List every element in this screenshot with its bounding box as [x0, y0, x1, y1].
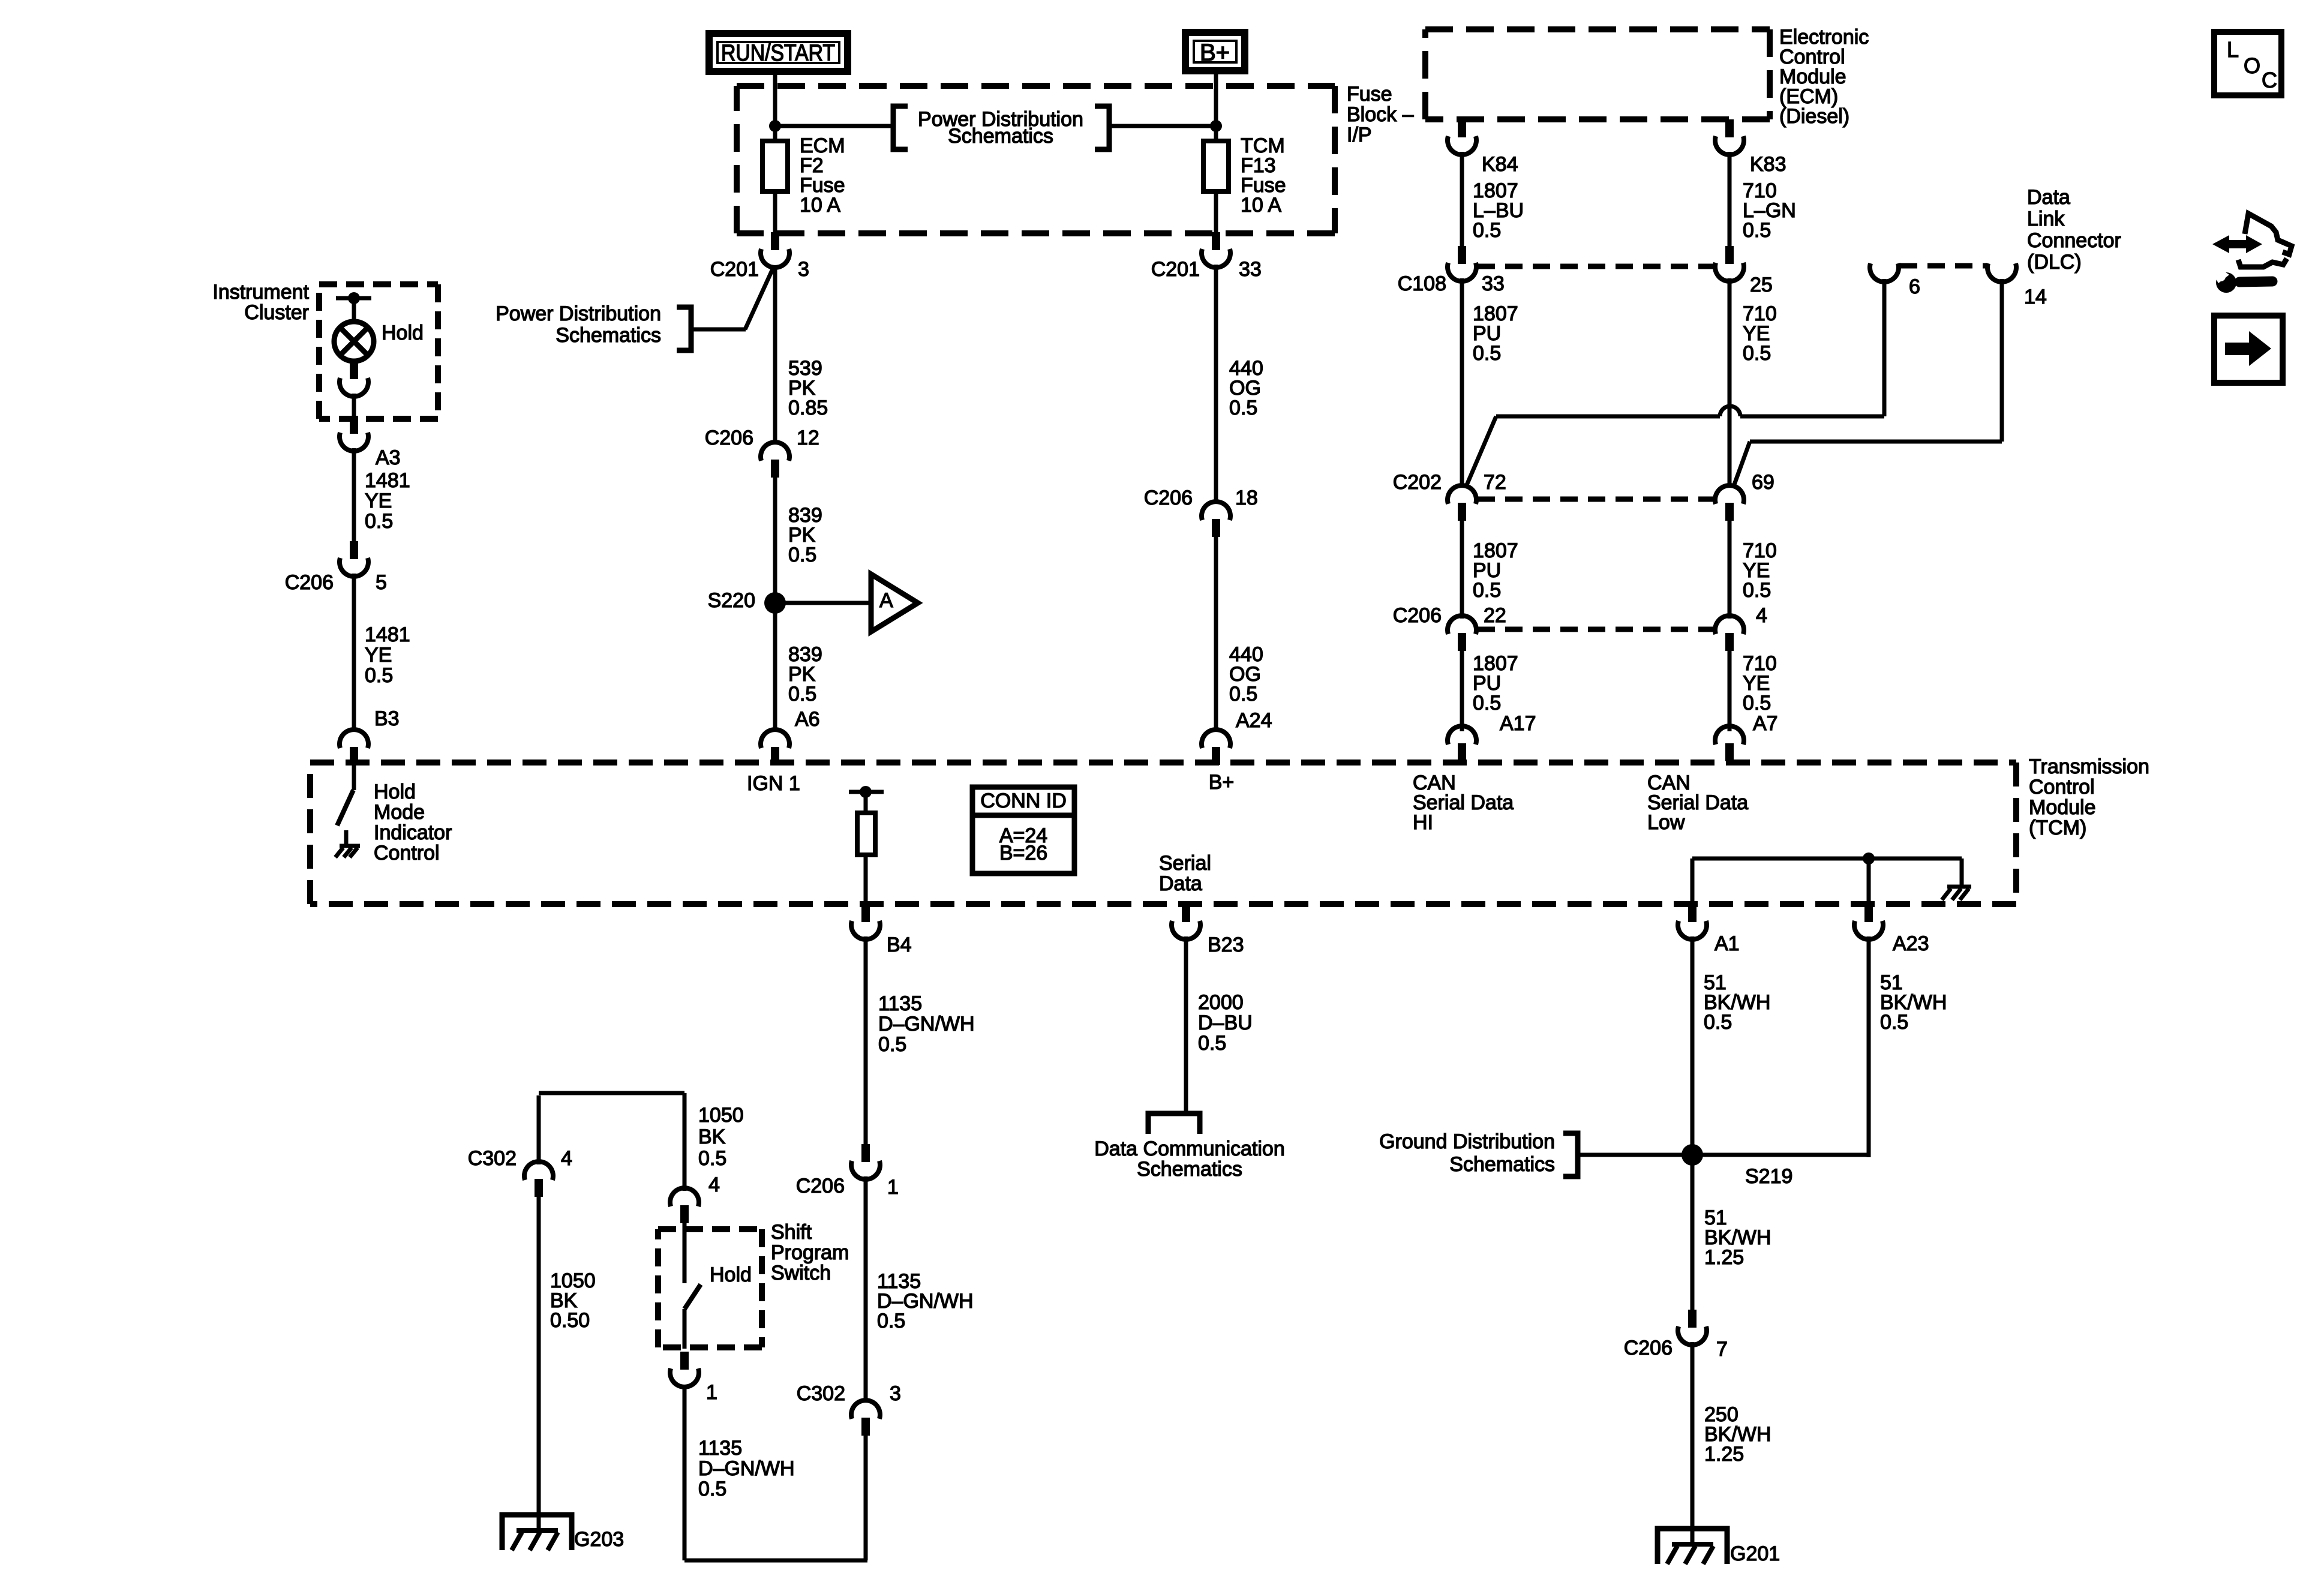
svg-text:Hold: Hold [374, 781, 416, 803]
svg-text:Mode: Mode [374, 801, 425, 824]
svg-text:Power Distribution: Power Distribution [496, 302, 661, 325]
svg-text:Cluster: Cluster [244, 301, 309, 324]
connector C202 pin 72 [1448, 485, 1476, 521]
wire diagonal C201-3 to callout [745, 266, 774, 329]
Electronic Control Module dashed box [1425, 29, 1770, 119]
svg-text:33: 33 [1239, 258, 1262, 281]
svg-text:1135: 1135 [878, 992, 922, 1015]
connector A24 (TCM B+) [1202, 730, 1230, 765]
connector C206 pin 5 [340, 541, 368, 577]
wire 250 BK/WH to G201 [1691, 1342, 1695, 1542]
wire B+ box to fuse F13 [1214, 74, 1218, 143]
svg-text:(TCM): (TCM) [2029, 816, 2086, 839]
fuse F13 TCM 10A [1203, 141, 1229, 191]
connector C201 pin 3 [761, 232, 789, 268]
svg-text:O: O [2244, 53, 2260, 78]
svg-text:B+: B+ [1209, 771, 1235, 794]
dashed line C108 row [1478, 264, 1714, 269]
svg-text:D–GN/WH: D–GN/WH [698, 1457, 795, 1480]
connector B23 [1172, 904, 1200, 939]
wire ground bus horizontal [1579, 1153, 1869, 1157]
wire dot to lamp [352, 298, 356, 323]
svg-text:Transmission: Transmission [2029, 755, 2149, 778]
svg-text:1050: 1050 [698, 1104, 744, 1127]
wire 710 YE (C202-C206) [1728, 520, 1732, 619]
wire C302-4 to G203 [537, 1197, 541, 1529]
svg-text:I/P: I/P [1347, 124, 1372, 146]
svg-text:C201: C201 [1151, 258, 1200, 281]
connector K84 [1448, 119, 1476, 155]
svg-text:Instrument: Instrument [212, 281, 309, 304]
wire junction to left bracket [775, 124, 892, 128]
svg-text:Data: Data [1159, 872, 1202, 895]
wire C302-4 riser and top corner [537, 1095, 541, 1164]
wire DLC pin 6 to C202-72 [1882, 279, 1887, 416]
connector C302 pin 4 [524, 1161, 553, 1197]
svg-text:C206: C206 [705, 427, 753, 449]
connector C206 pin 1 [851, 1144, 880, 1179]
connector C302 pin 3 [851, 1400, 880, 1436]
svg-text:Control: Control [374, 842, 440, 864]
connector A17 (TCM) [1448, 726, 1476, 761]
svg-text:0.5: 0.5 [878, 1033, 906, 1056]
svg-text:A3: A3 [376, 446, 401, 469]
svg-text:0.5: 0.5 [1743, 219, 1771, 242]
LOC reference box [2214, 32, 2281, 95]
DLC pin 14 connector [1987, 263, 2016, 282]
connector C206 pin 4 [1715, 616, 1744, 651]
bracket Ground Distribution Schematics [1563, 1133, 1578, 1176]
svg-text:0.5: 0.5 [698, 1147, 726, 1170]
svg-text:Module: Module [2029, 796, 2096, 819]
svg-text:Schematics: Schematics [948, 125, 1053, 148]
wire 710 YE (C108-C202) [1728, 278, 1732, 486]
svg-text:18: 18 [1235, 487, 1258, 509]
wire 1807 PU (C202-C206) [1460, 520, 1464, 619]
svg-text:3: 3 [890, 1382, 901, 1405]
connector C108 pin 25 [1715, 246, 1744, 281]
lamp Hold indicator [334, 322, 374, 361]
wire right bracket to B+ rail [1110, 124, 1216, 128]
dashed line DLC row [1900, 263, 1986, 269]
wire fuse F2 to C201-3 [773, 191, 777, 234]
svg-text:Serial: Serial [1159, 852, 1211, 875]
svg-text:Link: Link [2027, 208, 2065, 230]
node: junction dot left rail [769, 120, 781, 132]
svg-text:0.5: 0.5 [877, 1310, 905, 1332]
dashed line C206 row [1478, 627, 1714, 632]
wire 1135 D-GN/WH (C206-1 to C302-3) [864, 1176, 868, 1403]
svg-text:C206: C206 [1144, 487, 1193, 509]
svg-text:B3: B3 [374, 707, 400, 730]
svg-text:0.5: 0.5 [1198, 1032, 1226, 1055]
svg-text:Connector: Connector [2027, 229, 2121, 252]
svg-text:0.5: 0.5 [365, 664, 393, 687]
connector A23 [1854, 904, 1883, 939]
svg-text:7: 7 [1716, 1338, 1728, 1361]
off-page arrow A [871, 574, 918, 632]
svg-text:0.5: 0.5 [1473, 692, 1501, 715]
connector A1 [1678, 904, 1707, 939]
power rail box RUN/START [709, 34, 848, 71]
wire fuse F13 to C201-33 [1214, 191, 1218, 234]
wire up to switch pin 1 [683, 1385, 687, 1560]
Transmission Control Module dashed box [310, 763, 2016, 904]
svg-text:BK: BK [698, 1125, 726, 1148]
Fuse Block - I/P dashed box [737, 86, 1335, 233]
svg-text:Data: Data [2027, 186, 2070, 209]
svg-text:C206: C206 [1393, 604, 1442, 627]
splice S219 [1682, 1144, 1703, 1166]
wire 1807 PU (C206-A17) [1460, 650, 1464, 731]
connector C206 pin 7 [1678, 1310, 1707, 1345]
wire S219 to C206-7 [1691, 1155, 1695, 1311]
svg-text:A1: A1 [1715, 932, 1740, 955]
svg-text:0.5: 0.5 [1473, 579, 1501, 602]
svg-text:0.5: 0.5 [1473, 342, 1501, 365]
svg-text:0.5: 0.5 [1229, 397, 1257, 419]
connector A7 (TCM) [1715, 726, 1744, 761]
svg-text:12: 12 [797, 427, 819, 449]
svg-text:Fuse: Fuse [1347, 83, 1392, 106]
svg-text:A23: A23 [1893, 932, 1929, 955]
wire 440 OG lower [1214, 536, 1218, 731]
svg-text:1135: 1135 [698, 1437, 742, 1460]
svg-text:0.5: 0.5 [1743, 692, 1771, 715]
svg-text:D–BU: D–BU [1198, 1011, 1253, 1034]
wire 710 YE (C206-A7) [1728, 650, 1732, 731]
bracket left of Power Distribution Schematics (fuse block) [893, 106, 908, 149]
svg-text:0.5: 0.5 [365, 510, 393, 533]
svg-text:1481: 1481 [365, 623, 410, 646]
fuse F2 ECM 10A [762, 141, 788, 191]
svg-text:1481: 1481 [365, 469, 410, 492]
bracket right of Power Distribution Schematics (fuse block) [1095, 106, 1109, 149]
svg-text:22: 22 [1484, 604, 1506, 627]
connector C202 pin 69 [1715, 485, 1744, 521]
svg-text:Switch: Switch [771, 1262, 831, 1284]
svg-text:5: 5 [376, 571, 387, 594]
ground G201 [1658, 1529, 1727, 1564]
svg-text:Schematics: Schematics [1449, 1153, 1555, 1176]
connector B4 [851, 904, 880, 939]
svg-text:Ground Distribution: Ground Distribution [1379, 1130, 1555, 1153]
svg-text:C206: C206 [285, 571, 334, 594]
wire 51 BK/WH A1 [1691, 936, 1695, 1155]
connector B3 (TCM) [340, 730, 368, 765]
wire 1135 D-GN/WH (B4 to C206-1) [864, 936, 868, 1145]
svg-text:C108: C108 [1398, 272, 1446, 295]
node: junction dot B+ rail [1210, 120, 1222, 132]
switch Hold contact [683, 1223, 687, 1283]
wire 1481 YE segment lower [352, 574, 356, 731]
svg-text:C302: C302 [797, 1382, 845, 1405]
svg-text:0.85: 0.85 [788, 397, 828, 419]
svg-text:72: 72 [1484, 471, 1506, 494]
connector C201 pin 33 [1202, 232, 1230, 268]
svg-text:C: C [2262, 68, 2277, 92]
data link connector icon (dog head with arrows and wrench) [2238, 214, 2292, 267]
svg-text:1: 1 [706, 1381, 717, 1404]
svg-text:A7: A7 [1753, 712, 1778, 735]
svg-text:25: 25 [1750, 274, 1773, 296]
ground G203 [502, 1515, 572, 1550]
svg-text:B23: B23 [1208, 933, 1244, 956]
connector C206 pin 22 [1448, 616, 1476, 651]
svg-text:C201: C201 [710, 258, 759, 281]
svg-text:A6: A6 [795, 708, 820, 731]
svg-text:Data Communication: Data Communication [1094, 1137, 1284, 1160]
svg-text:0.5: 0.5 [698, 1478, 726, 1500]
svg-text:33: 33 [1482, 272, 1505, 295]
svg-text:HI: HI [1413, 811, 1433, 834]
wire 710 L-GN [1728, 152, 1732, 247]
svg-text:C206: C206 [796, 1175, 845, 1197]
connector cluster internal [340, 361, 368, 397]
svg-text:G201: G201 [1730, 1542, 1780, 1565]
node: cluster feed dot and bus line [336, 296, 371, 301]
svg-text:RUN/START: RUN/START [721, 40, 835, 66]
svg-text:Hold: Hold [382, 322, 424, 344]
wire 440 OG upper [1214, 265, 1218, 504]
svg-text:4: 4 [561, 1147, 572, 1170]
svg-text:2000: 2000 [1198, 991, 1244, 1014]
svg-text:0.5: 0.5 [1743, 579, 1771, 602]
svg-text:Block –: Block – [1347, 103, 1414, 126]
svg-text:YE: YE [365, 490, 392, 512]
svg-text:YE: YE [365, 644, 392, 667]
svg-text:1.25: 1.25 [1704, 1443, 1744, 1466]
connector K83 [1715, 119, 1744, 155]
power rail box B+ [1185, 32, 1245, 71]
wire C302-3 to bottom corner [864, 1436, 868, 1560]
svg-text:IGN 1: IGN 1 [747, 772, 800, 795]
svg-text:6: 6 [1909, 275, 1920, 298]
wire 1807 PU (C108-C202) [1460, 278, 1464, 486]
connector switch pin 4 [670, 1188, 699, 1223]
svg-text:14: 14 [2024, 286, 2047, 308]
svg-text:0.5: 0.5 [788, 683, 816, 706]
connector C206 pin 12 [761, 442, 789, 478]
svg-text:4: 4 [708, 1173, 720, 1196]
resistor element in TCM (IGN1) [849, 790, 884, 794]
connector C206 pin 18 [1202, 502, 1230, 537]
connector C108 pin 33 [1448, 246, 1476, 281]
svg-text:4: 4 [1756, 604, 1767, 627]
svg-text:0.5: 0.5 [1229, 683, 1257, 706]
svg-text:CONN ID: CONN ID [980, 789, 1067, 812]
wire RUN/START to fuse F2 [773, 75, 777, 143]
DLC pin 6 connector [1870, 263, 1899, 282]
svg-text:S220: S220 [708, 589, 755, 612]
Instrument Cluster dashed box [319, 284, 438, 419]
svg-text:C206: C206 [1624, 1337, 1673, 1359]
svg-text:C202: C202 [1393, 471, 1442, 494]
splice S220 [764, 592, 786, 614]
svg-text:A24: A24 [1236, 709, 1272, 732]
wire bottom horizontal [684, 1559, 867, 1563]
TCM internal ground net A1/A23 [1691, 858, 1695, 905]
svg-text:0.50: 0.50 [550, 1309, 590, 1332]
connector switch pin 1 [670, 1352, 699, 1387]
svg-text:Program: Program [771, 1241, 849, 1264]
svg-text:G203: G203 [574, 1528, 624, 1551]
svg-text:A: A [879, 589, 893, 612]
wire 2000 D-BU [1184, 936, 1188, 1113]
switch Hold Mode Indicator Control [352, 765, 356, 790]
svg-text:0.5: 0.5 [1880, 1011, 1908, 1034]
svg-text:Schematics: Schematics [1137, 1158, 1242, 1181]
wire 1807 L-BU [1460, 152, 1464, 247]
svg-text:C302: C302 [468, 1147, 517, 1170]
svg-text:Indicator: Indicator [374, 821, 452, 844]
svg-text:Control: Control [2029, 776, 2095, 798]
wire 539 PK segment [773, 266, 777, 445]
wire 1481 YE segment upper [352, 448, 356, 541]
svg-text:S219: S219 [1745, 1165, 1792, 1188]
svg-text:B+: B+ [1200, 40, 1230, 66]
svg-text:0.5: 0.5 [1704, 1011, 1732, 1034]
svg-text:10 A: 10 A [800, 194, 840, 217]
svg-text:1: 1 [887, 1176, 899, 1199]
svg-text:0.5: 0.5 [1473, 219, 1501, 242]
wire 839 PK segment lower [773, 603, 777, 731]
svg-text:69: 69 [1752, 471, 1774, 494]
connector A6 (TCM IGN 1) [761, 730, 789, 765]
wire DLC pin 14 to C202-69 [2000, 279, 2004, 442]
wire cluster connector to A3 [352, 394, 356, 417]
svg-text:(Diesel): (Diesel) [1779, 105, 1849, 128]
svg-text:K84: K84 [1482, 153, 1518, 176]
wire S220 to arrow A [775, 601, 871, 605]
wire lamp to cluster connector [352, 361, 356, 364]
svg-text:D–GN/WH: D–GN/WH [878, 1013, 975, 1035]
CONN ID table [972, 787, 1074, 873]
svg-text:0.5: 0.5 [1743, 342, 1771, 365]
svg-text:A17: A17 [1500, 712, 1536, 735]
svg-text:Hold: Hold [710, 1263, 752, 1286]
off-page arrow box [2214, 316, 2283, 383]
svg-text:B=26: B=26 [999, 842, 1047, 864]
dashed line C202 row [1478, 497, 1714, 502]
svg-text:(DLC): (DLC) [2027, 251, 2082, 274]
svg-text:3: 3 [798, 258, 809, 281]
svg-text:0.5: 0.5 [788, 544, 816, 566]
svg-text:Low: Low [1647, 811, 1685, 834]
svg-text:Shift: Shift [771, 1221, 812, 1244]
svg-text:1.25: 1.25 [1704, 1246, 1744, 1269]
wire 839 PK segment upper [773, 476, 777, 603]
svg-text:L: L [2227, 37, 2239, 62]
svg-text:B4: B4 [887, 933, 912, 956]
Shift Program Switch dashed box [658, 1229, 762, 1347]
connector A3 [340, 416, 368, 451]
off-page wire end (data comm) [1148, 1113, 1200, 1134]
svg-text:K83: K83 [1750, 153, 1786, 176]
wire 51 BK/WH A23 [1867, 936, 1871, 1157]
svg-text:10 A: 10 A [1241, 194, 1281, 217]
svg-text:Schematics: Schematics [556, 324, 661, 347]
bracket Power Distribution Schematics callout (left) [677, 307, 691, 350]
